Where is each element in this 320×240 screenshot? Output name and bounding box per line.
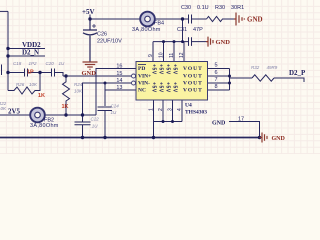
node +5V [88, 17, 91, 20]
svg-text:NC: NC [138, 88, 146, 94]
node C22 rail [81, 136, 84, 139]
ground sideways top right [234, 13, 244, 26]
ferrite bead FB4 [140, 12, 155, 27]
capacitor C18 [25, 69, 28, 77]
wire bus drop to rail [153, 122, 155, 138]
svg-text:10K: 10K [29, 82, 38, 87]
svg-text:VOUT: VOUT [183, 66, 203, 72]
wire +5V rail [90, 15, 141, 20]
resistor R30 [207, 16, 235, 21]
svg-text:47P: 47P [193, 27, 203, 33]
capacitor C20 [52, 69, 55, 77]
node C24 rail [103, 136, 106, 139]
svg-text:GND: GND [82, 70, 97, 77]
wire input cap row [8, 72, 24, 74]
wire C18 to C20 [28, 72, 52, 74]
pin numbers left [116, 63, 122, 91]
svg-text:R24: R24 [74, 82, 83, 87]
svg-text:9: 9 [148, 54, 154, 57]
pin +5V columns [151, 64, 178, 93]
wire D2_N stub [8, 55, 45, 57]
svg-text:8: 8 [215, 84, 218, 90]
capacitor C22 [75, 115, 91, 138]
svg-text:17: 17 [238, 117, 244, 123]
capacitor C31 [189, 37, 207, 46]
svg-text:+5V: +5V [158, 64, 164, 75]
wire 2V5 left [0, 114, 31, 116]
svg-text:5: 5 [215, 63, 218, 69]
svg-text:GND: GND [212, 121, 226, 127]
svg-text:1P2: 1P2 [29, 61, 38, 66]
svg-text:VOUT: VOUT [183, 81, 203, 87]
svg-text:.1U: .1U [91, 124, 99, 129]
node cap row [6, 71, 9, 74]
svg-text:C20: C20 [46, 61, 55, 66]
svg-text:1U: 1U [59, 61, 66, 66]
node C18-C20 [38, 71, 41, 74]
svg-text:C22: C22 [91, 117, 100, 122]
node top right [181, 17, 184, 20]
wire left bus vertical [7, 11, 9, 90]
node pin17 rail [258, 136, 261, 139]
node VDD2 [6, 47, 9, 50]
svg-text:C30: C30 [181, 5, 191, 11]
svg-text:22UF/10V: 22UF/10V [97, 39, 122, 45]
wire output [230, 77, 253, 79]
svg-text:+5V: +5V [165, 64, 171, 75]
resistor R24 [63, 76, 70, 115]
svg-text:15: 15 [116, 71, 122, 77]
svg-text:+5V: +5V [172, 82, 178, 93]
svg-text:14: 14 [116, 78, 122, 84]
svg-text:0.1U: 0.1U [197, 5, 209, 11]
ground sideways rail end [260, 133, 268, 143]
svg-text:C24: C24 [111, 104, 120, 109]
wire PD net [96, 69, 136, 116]
svg-text:11: 11 [169, 53, 175, 58]
node R24 bottom [64, 113, 67, 116]
resistor R26 [8, 73, 40, 95]
node bottom bus 3 [171, 120, 174, 123]
svg-text:D2_N: D2_N [22, 49, 39, 57]
pin numbers bottom rotated [149, 108, 184, 111]
svg-text:12: 12 [179, 52, 185, 58]
ferrite bead FB2 [30, 108, 45, 123]
node D2_N [6, 54, 9, 57]
node bus 10 [162, 40, 165, 43]
node vout 6 [228, 75, 231, 78]
wire NC stub [105, 89, 136, 91]
svg-text:6: 6 [215, 70, 218, 76]
wire pin17 stub [229, 122, 260, 138]
wire VIN- row [83, 83, 137, 115]
pin numbers top rotated [148, 52, 185, 58]
svg-text:2V5: 2V5 [8, 108, 21, 116]
svg-text:D2_P: D2_P [289, 69, 306, 77]
node vout 7 [228, 82, 231, 85]
svg-text:3: 3 [168, 108, 174, 111]
svg-text:30R1: 30R1 [231, 5, 244, 11]
wire IC bottom pins [154, 100, 183, 122]
node R24 top [64, 74, 67, 77]
svg-text:13: 13 [116, 85, 122, 91]
svg-text:U4: U4 [185, 103, 192, 109]
svg-text:C18: C18 [13, 61, 22, 66]
svg-text:C31: C31 [177, 27, 187, 33]
wire top pin bus [153, 41, 188, 43]
svg-text:VIN-: VIN- [138, 81, 150, 87]
node bus drop [181, 40, 184, 43]
resistor R32 [252, 75, 274, 81]
svg-text:16: 16 [116, 63, 122, 69]
svg-text:+5V: +5V [172, 64, 178, 75]
svg-text:4: 4 [177, 108, 183, 111]
wire output to D2_P [274, 78, 304, 82]
capacitor C24 [98, 83, 113, 138]
svg-text:1: 1 [149, 108, 155, 111]
wire VOUT tie bus [229, 69, 231, 91]
svg-text:10: 10 [159, 52, 165, 58]
wire VDD2 stub [8, 48, 45, 50]
wire left bus top horizontal [0, 10, 8, 12]
node bus 11 [173, 40, 176, 43]
wire 2V5 right of FB2 [44, 114, 96, 116]
wire VOUT stubs [208, 69, 230, 91]
ground sideways at C31 [206, 37, 213, 47]
svg-text:+5V: +5V [158, 82, 164, 93]
node bottom bus 2 [162, 120, 165, 123]
svg-text:VIN+: VIN+ [138, 74, 151, 80]
node C24 vin- [104, 82, 107, 85]
wire node drop to pin bus [182, 19, 184, 42]
svg-text:1U: 1U [111, 110, 118, 115]
wire FB4 to node [155, 18, 183, 20]
svg-text:1P: 1P [27, 70, 34, 76]
wire VIN+ row [63, 75, 136, 77]
svg-text:+5V: +5V [165, 82, 171, 93]
svg-text:VOUT: VOUT [183, 74, 203, 80]
svg-text:10K: 10K [74, 89, 83, 94]
svg-text:VOUT: VOUT [183, 88, 203, 94]
svg-text:7: 7 [215, 77, 218, 83]
svg-text:R32: R32 [251, 65, 260, 70]
wire cropped left edge [1, 65, 3, 76]
svg-text:1K: 1K [62, 104, 69, 110]
ground below C26 [83, 62, 98, 69]
svg-text:THS4303: THS4303 [185, 110, 207, 116]
wire C20 to corner [55, 73, 64, 77]
svg-text:49R9: 49R9 [267, 65, 278, 70]
svg-text:+5V: +5V [82, 8, 95, 16]
svg-text:GND: GND [272, 136, 286, 142]
svg-text:FB4: FB4 [154, 21, 164, 27]
svg-text:+5V: +5V [151, 64, 157, 75]
svg-text:GND: GND [247, 16, 263, 24]
pin numbers right [215, 63, 218, 91]
svg-text:3A,80Ohm: 3A,80Ohm [30, 123, 59, 129]
node bus rail [152, 136, 155, 139]
svg-text:1K: 1K [38, 93, 45, 99]
wire bottom pin bus [154, 121, 183, 123]
wire ground rail [0, 137, 260, 139]
svg-text:GND: GND [216, 39, 231, 46]
op-amp U4 THS4303 body [136, 62, 208, 101]
capacitor C26 [83, 19, 97, 62]
pin bubbles [132, 74, 136, 78]
capacitor C30 [183, 15, 207, 24]
svg-text:+5V: +5V [151, 82, 157, 93]
wire IC top pins [153, 42, 184, 62]
svg-text:2: 2 [158, 108, 164, 111]
svg-text:PD: PD [138, 66, 145, 72]
svg-text:C26: C26 [97, 32, 107, 38]
svg-text:R30: R30 [215, 5, 225, 11]
svg-text:3A,80Ohm: 3A,80Ohm [132, 27, 161, 33]
svg-text:10K: 10K [0, 106, 7, 111]
svg-text:R26: R26 [16, 82, 25, 87]
node VIN- drop [81, 113, 84, 116]
